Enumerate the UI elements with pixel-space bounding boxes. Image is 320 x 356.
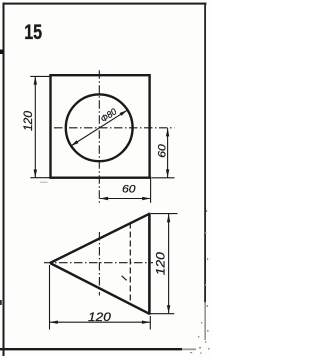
dim 60 middle: arrow left xyxy=(100,197,108,200)
frame left border xyxy=(3,3,5,356)
svg-text:60: 60 xyxy=(122,184,136,196)
dim 120 left: arrow up xyxy=(34,76,37,84)
faint mark below square corner xyxy=(40,182,48,183)
dim 60 right: dimension line xyxy=(167,128,169,177)
dim 120 right: arrow up xyxy=(167,214,170,222)
dim 60 middle: dimension line xyxy=(100,198,150,200)
svg-text:120: 120 xyxy=(21,111,35,131)
dim 120 right: bottom extension line xyxy=(150,313,174,315)
dim 120 right: arrow down xyxy=(167,305,170,313)
dim 120 left: top extension line xyxy=(30,75,49,77)
triangle horizontal centerline xyxy=(44,262,153,264)
dim 60 right: arrow up xyxy=(166,128,169,136)
dim 60 middle: right extension line xyxy=(150,177,152,203)
hidden line (dashed) xyxy=(129,223,131,305)
diameter leader line xyxy=(71,110,127,146)
triangle top edge (front view) xyxy=(50,214,149,263)
svg-text:120: 120 xyxy=(154,252,168,275)
circle f80 xyxy=(66,94,133,161)
dim 120 bottom: dimension line xyxy=(50,321,150,323)
dim 120 bottom: arrow right xyxy=(142,321,150,324)
vertical centerline of circle xyxy=(98,70,100,203)
horizontal centerline of circle xyxy=(54,127,174,129)
dim 120 left: arrow down xyxy=(34,170,37,178)
frame top border xyxy=(3,3,207,5)
edge blemish lower-left xyxy=(0,300,2,305)
triangle vertical centerline xyxy=(98,232,100,296)
dim 120 right of triangle: top extension line xyxy=(151,213,178,215)
dim 120 bottom: left extension line xyxy=(49,265,51,330)
diameter arrow lower xyxy=(71,140,79,146)
edge blemish upper-left xyxy=(0,50,3,55)
frame bottom border xyxy=(0,348,182,350)
frame right border xyxy=(204,3,206,303)
dim 120 bottom: arrow left xyxy=(50,321,58,324)
svg-text:120: 120 xyxy=(88,310,111,324)
dim 60 middle: arrow right xyxy=(142,197,150,200)
diameter arrow upper xyxy=(120,110,128,116)
svg-text:60: 60 xyxy=(156,143,168,157)
dim 120 bottom: right extension line xyxy=(149,316,151,330)
dim 60 right: arrow down xyxy=(166,169,169,177)
svg-text:15: 15 xyxy=(24,21,42,45)
dim 120 left: bottom extension line xyxy=(30,177,49,179)
scan speckles right edge xyxy=(190,210,209,354)
dim 60 right of square: bottom extension line xyxy=(152,177,175,179)
square outline (top view) xyxy=(51,75,150,178)
dim 120 right: dimension line xyxy=(168,214,170,313)
triangle right edge xyxy=(148,213,151,315)
dim 120 left: dimension line xyxy=(34,76,36,177)
triangle bottom edge xyxy=(50,263,149,314)
stray diagonal dash xyxy=(122,276,127,281)
